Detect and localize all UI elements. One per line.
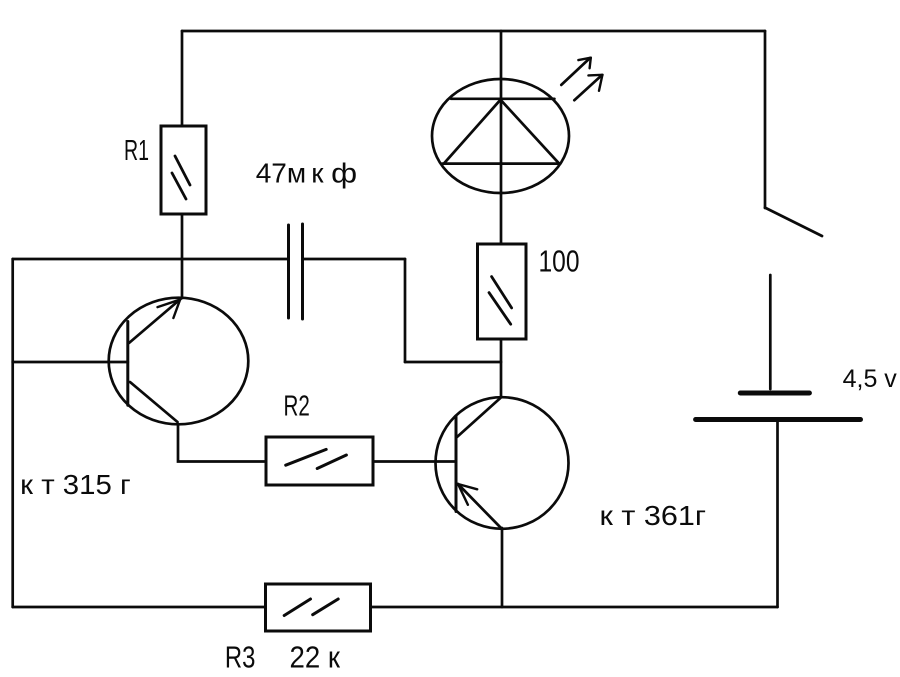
wire: battery bottom lead — [776, 421, 779, 607]
LED VD1 — [432, 79, 569, 193]
label 47мкф (C1 value) — [256, 158, 358, 189]
svg-text:22 к: 22 к — [290, 640, 341, 674]
svg-text:R2: R2 — [284, 390, 310, 422]
battery GB1 negative plate — [696, 417, 861, 422]
wire: bottom rail right of R3 — [371, 606, 778, 609]
wire: branch vertical down — [404, 259, 407, 362]
capacitor C1 47mkF — [289, 224, 303, 319]
switch SA1 blade — [765, 208, 822, 236]
svg-text:47м: 47м — [256, 158, 306, 189]
svg-text:R1: R1 — [124, 135, 149, 167]
wire: switch lower contact to battery — [769, 275, 772, 389]
svg-text:4,5 v: 4,5 v — [843, 365, 898, 393]
svg-text:100: 100 — [539, 243, 580, 278]
wire: R1 top lead — [181, 31, 184, 126]
wire: R1 bottom lead to Q1 collector — [181, 214, 184, 298]
wire: R2 to Q2 base — [373, 460, 456, 463]
wire: top supply rail — [182, 30, 765, 33]
resistor R4 100 — [478, 244, 527, 339]
battery GB1 positive plate — [740, 391, 809, 396]
wire: left vertical rail — [11, 259, 14, 607]
LED light arrow 1 — [561, 58, 591, 85]
wire: 100 bottom lead to Q2 collector — [500, 339, 503, 397]
svg-text:R3: R3 — [225, 640, 256, 674]
wire: Q2 emitter down — [501, 528, 504, 607]
transistor Q2 (КТ361Г) — [436, 397, 569, 529]
wire: right rail to switch — [764, 31, 767, 208]
transistor Q1 (КТ315Г) — [109, 298, 249, 425]
svg-text:ф: ф — [331, 158, 357, 189]
resistor R3 — [266, 584, 371, 631]
wire: bottom rail left of R3 — [13, 606, 266, 609]
svg-text:к: к — [311, 158, 324, 189]
svg-text:к т 315 г: к т 315 г — [20, 469, 131, 500]
resistor R2 — [266, 437, 373, 485]
LED light arrow 2 — [574, 75, 602, 100]
wire: capacitor right to branch corner — [303, 258, 406, 261]
wire: Q1 emitter to R2 — [178, 424, 266, 462]
wire: left rail horizontal to capacitor — [13, 258, 289, 261]
svg-text:к т 361г: к т 361г — [600, 500, 707, 531]
wire: branch horizontal to Q2 collector node — [405, 361, 501, 364]
wire: LED branch vertical — [500, 31, 503, 244]
wire: Q1 base wire — [13, 361, 128, 364]
resistor R1 — [161, 126, 206, 214]
